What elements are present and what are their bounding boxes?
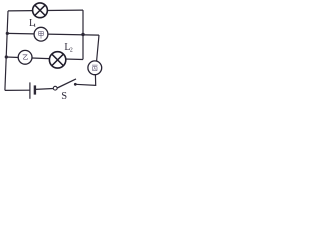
lamp L2 xyxy=(49,52,65,68)
battery: long plate (positive) xyxy=(29,82,31,98)
wire: right middle vertical (top node down to L2) xyxy=(82,10,84,59)
label L1 xyxy=(29,18,36,29)
lamp L1 xyxy=(33,3,48,18)
wire: 丙 bottom to lower-right corner xyxy=(75,74,95,85)
switch S: right terminal xyxy=(74,83,77,86)
svg-text:2: 2 xyxy=(70,48,73,54)
switch S: left terminal xyxy=(53,86,57,90)
junction: left wire / row2 xyxy=(6,32,9,35)
junction: left wire / row3 xyxy=(5,55,8,58)
meter 丙 xyxy=(88,61,102,75)
wire: left branch vertical xyxy=(5,11,8,91)
wire: 丙 branch from row2 corner down xyxy=(97,35,100,62)
wire: top side (node from L1 across top) xyxy=(8,9,83,12)
wire: row 3 horizontal through meter 乙 and lamp L2 xyxy=(6,57,83,60)
svg-text:1: 1 xyxy=(33,23,36,29)
wire: bottom left (battery to left corner) xyxy=(5,89,30,91)
switch S: blade xyxy=(57,79,76,88)
label L2 xyxy=(64,42,72,54)
junction: right vertical / row2 xyxy=(81,33,84,36)
wire: row 2 horizontal through meter 甲 xyxy=(7,33,99,35)
wire: battery to switch xyxy=(36,88,54,91)
meter 甲 (U甲) xyxy=(34,27,48,41)
svg-text:S: S xyxy=(61,91,67,100)
meter 乙 xyxy=(18,50,32,64)
battery: short plate (negative) xyxy=(34,85,36,94)
